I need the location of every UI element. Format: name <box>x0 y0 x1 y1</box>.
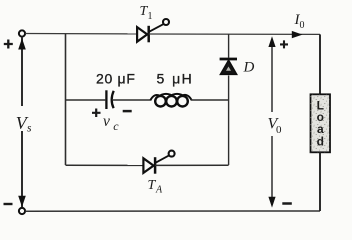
wire inner bottom branch left <box>66 164 144 166</box>
current arrow I0 <box>292 31 303 38</box>
svg-text:0: 0 <box>300 20 305 31</box>
label + of source <box>4 40 13 49</box>
svg-text:5 μH: 5 μH <box>157 71 194 87</box>
V0 indicator arrow down <box>271 136 273 204</box>
svg-text:0: 0 <box>276 124 282 136</box>
svg-text:D: D <box>243 60 255 76</box>
wire top right segment <box>149 33 320 35</box>
source Vs line lower <box>21 131 23 208</box>
load box <box>311 94 331 152</box>
source Vs arrow down <box>18 196 26 207</box>
label - of V0 <box>282 202 292 205</box>
svg-text:s: s <box>27 122 32 134</box>
source Vs arrow up <box>18 38 26 49</box>
svg-text:v: v <box>103 113 110 130</box>
wire inner bottom branch right <box>155 164 229 166</box>
terminal negative (bottom-left) <box>19 208 25 214</box>
wire right vertical lower <box>319 152 321 211</box>
svg-text:1: 1 <box>148 11 153 22</box>
wire right vertical upper <box>319 34 321 94</box>
wire inner-right vertical <box>228 34 230 165</box>
diode D <box>220 59 237 74</box>
label + of V0 <box>280 40 288 48</box>
wire bottom <box>25 210 320 212</box>
capacitor 20uF <box>106 90 113 109</box>
wire top left segment <box>25 33 137 35</box>
label - of source <box>4 203 13 205</box>
inductor 5uH <box>151 94 192 107</box>
svg-text:c: c <box>113 119 119 133</box>
wire middle branch left <box>66 99 106 101</box>
svg-text:A: A <box>155 185 163 196</box>
label + of capacitor <box>92 109 101 118</box>
V0 indicator arrow up <box>271 40 273 112</box>
terminal positive (top-left) <box>19 30 25 36</box>
thyristor T1 <box>137 19 169 42</box>
svg-text:20 μF: 20 μF <box>96 71 136 87</box>
wire inner-left vertical <box>65 34 67 165</box>
label - of capacitor <box>123 110 132 113</box>
wire middle branch right <box>191 99 229 101</box>
wire middle branch center <box>113 99 152 101</box>
thyristor TA <box>143 151 174 174</box>
svg-text:d: d <box>317 135 324 149</box>
source Vs line upper <box>21 37 23 106</box>
